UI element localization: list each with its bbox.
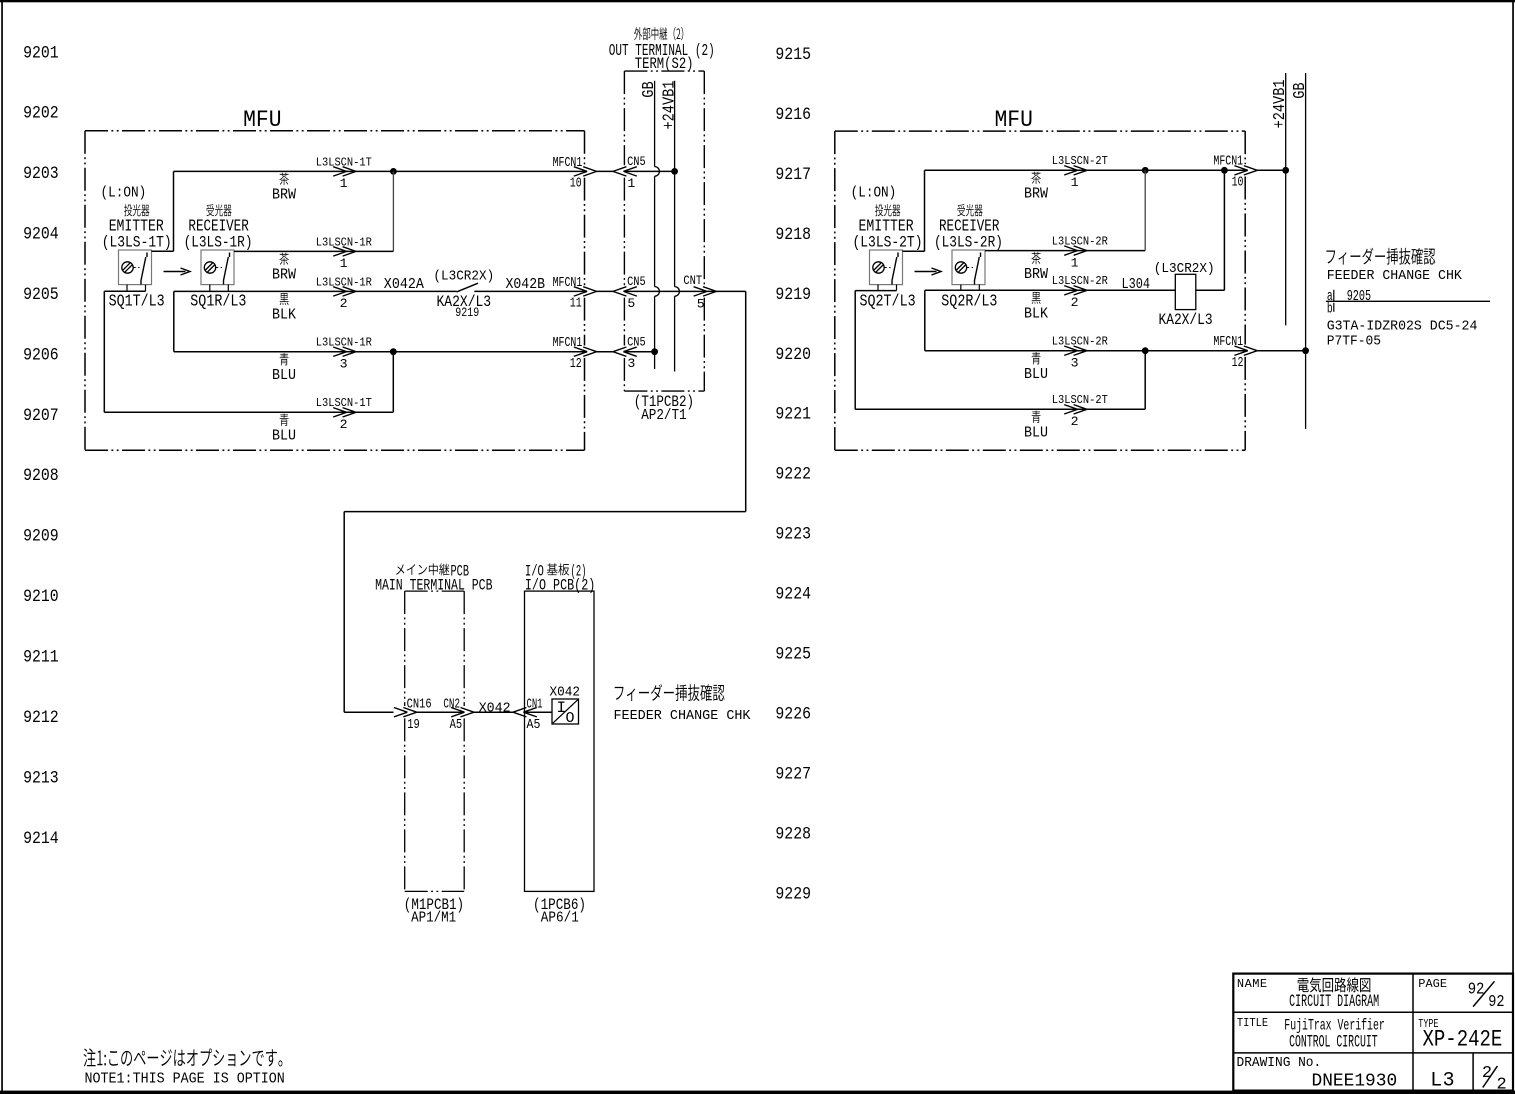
svg-text:TITLE: TITLE: [1237, 1016, 1268, 1030]
svg-text:MFCN1: MFCN1: [1213, 335, 1243, 350]
svg-text:9209: 9209: [23, 528, 59, 547]
svg-text:X042A: X042A: [384, 277, 424, 293]
svg-text:9226: 9226: [775, 706, 811, 725]
svg-text:CN16: CN16: [407, 696, 432, 712]
svg-text:1: 1: [1071, 175, 1079, 190]
svg-text:P7TF-05: P7TF-05: [1327, 334, 1381, 349]
svg-text:BLK: BLK: [272, 308, 296, 324]
svg-text:X042B: X042B: [506, 277, 546, 293]
svg-text:CN5: CN5: [627, 334, 646, 349]
svg-text:KA2X/L3: KA2X/L3: [1159, 311, 1213, 329]
svg-text:1: 1: [627, 176, 635, 191]
svg-text:AP2/T1: AP2/T1: [641, 408, 686, 424]
svg-text:BRW: BRW: [1024, 187, 1048, 203]
svg-text:5: 5: [697, 297, 705, 312]
svg-text:9213: 9213: [23, 769, 59, 788]
svg-text:BLU: BLU: [1024, 426, 1048, 442]
svg-text:MFCN1: MFCN1: [553, 276, 583, 291]
svg-text:9219: 9219: [455, 305, 479, 320]
svg-text:12: 12: [1232, 356, 1244, 371]
svg-text:9202: 9202: [23, 105, 59, 124]
svg-text:1: 1: [340, 176, 348, 191]
svg-text:(L3CR2X): (L3CR2X): [1154, 261, 1215, 277]
svg-text:9205: 9205: [23, 286, 59, 305]
svg-text:L3LSCN-2R: L3LSCN-2R: [1052, 235, 1108, 249]
svg-text:(L3LS-1R): (L3LS-1R): [184, 233, 253, 251]
svg-text:MFCN1: MFCN1: [553, 156, 583, 171]
svg-text:(L:ON): (L:ON): [851, 186, 897, 202]
svg-text:2: 2: [1071, 414, 1079, 429]
svg-text:L3LSCN-2T: L3LSCN-2T: [1052, 154, 1108, 168]
svg-text:XP-242E: XP-242E: [1423, 1027, 1503, 1053]
svg-text:9207: 9207: [23, 407, 59, 426]
svg-text:2: 2: [1497, 1076, 1507, 1094]
svg-text:9224: 9224: [775, 586, 811, 605]
svg-text:9218: 9218: [775, 226, 811, 245]
svg-text:9229: 9229: [775, 885, 811, 904]
svg-text:1: 1: [340, 256, 348, 271]
svg-text:CN2: CN2: [443, 696, 460, 712]
svg-text:9227: 9227: [775, 765, 811, 784]
svg-text:+24VB1: +24VB1: [660, 81, 678, 130]
svg-text:9205: 9205: [1347, 289, 1371, 305]
svg-text:9208: 9208: [23, 467, 59, 486]
svg-text:A5: A5: [450, 717, 463, 733]
svg-text:GB: GB: [1291, 82, 1309, 99]
svg-text:AP6/1: AP6/1: [541, 909, 579, 926]
svg-text:L304: L304: [1122, 277, 1151, 293]
svg-text:9221: 9221: [775, 406, 811, 425]
svg-text:L3LSCN-2R: L3LSCN-2R: [1052, 274, 1108, 288]
svg-text:A5: A5: [527, 717, 541, 733]
svg-text:10: 10: [1232, 176, 1244, 191]
svg-text:12: 12: [570, 357, 582, 372]
svg-text:MFCN1: MFCN1: [553, 336, 583, 351]
svg-text:TERM(S2): TERM(S2): [635, 55, 694, 73]
svg-text:BLU: BLU: [272, 368, 296, 384]
svg-text:9216: 9216: [775, 106, 811, 125]
svg-text:BLU: BLU: [272, 429, 296, 445]
svg-text:CNT: CNT: [683, 273, 702, 288]
svg-text:MFCN1: MFCN1: [1213, 155, 1243, 170]
svg-text:L3: L3: [1430, 1069, 1454, 1092]
svg-text:L3LSCN-2R: L3LSCN-2R: [1052, 335, 1108, 349]
svg-text:2: 2: [340, 417, 348, 432]
svg-text:(L3LS-1T): (L3LS-1T): [102, 233, 172, 251]
svg-text:2: 2: [340, 296, 348, 311]
svg-text:(L3CR2X): (L3CR2X): [433, 269, 494, 285]
svg-text:FujiTrax Verifier: FujiTrax Verifier: [1284, 1016, 1385, 1034]
svg-text:NOTE1:THIS PAGE IS OPTION: NOTE1:THIS PAGE IS OPTION: [85, 1072, 285, 1088]
svg-text:3: 3: [340, 357, 348, 372]
svg-text:CN1: CN1: [527, 696, 543, 712]
svg-text:X042: X042: [479, 700, 511, 716]
svg-text:10: 10: [570, 177, 582, 192]
svg-text:DRAWING No.: DRAWING No.: [1237, 1055, 1322, 1071]
svg-text:(L3LS-2T): (L3LS-2T): [853, 233, 923, 251]
svg-text:CN5: CN5: [627, 274, 646, 289]
svg-text:GB: GB: [640, 81, 658, 98]
svg-text:9217: 9217: [775, 166, 811, 185]
svg-text:NAME: NAME: [1237, 977, 1267, 991]
svg-text:SQ1R/L3: SQ1R/L3: [190, 292, 246, 311]
svg-text:+24VB1: +24VB1: [1271, 79, 1289, 128]
svg-text:9206: 9206: [23, 346, 59, 365]
svg-text:CIRCUIT DIAGRAM: CIRCUIT DIAGRAM: [1289, 993, 1379, 1012]
svg-text:5: 5: [627, 296, 635, 311]
svg-text:9225: 9225: [775, 646, 811, 665]
svg-text:9212: 9212: [23, 709, 59, 728]
svg-text:MFU: MFU: [995, 107, 1033, 134]
svg-text:(L3LS-2R): (L3LS-2R): [934, 233, 1003, 251]
svg-text:9203: 9203: [23, 165, 59, 184]
svg-text:BRW: BRW: [1024, 267, 1048, 283]
svg-text:9211: 9211: [23, 649, 59, 668]
svg-text:BLK: BLK: [1024, 307, 1048, 323]
svg-text:AP1/M1: AP1/M1: [411, 909, 456, 926]
svg-text:L3LSCN-2T: L3LSCN-2T: [1052, 393, 1108, 407]
svg-text:1: 1: [1071, 255, 1079, 270]
svg-text:9222: 9222: [775, 466, 811, 485]
svg-text:9214: 9214: [23, 830, 59, 849]
svg-text:O: O: [566, 710, 575, 727]
svg-text:9204: 9204: [23, 226, 59, 245]
svg-text:SQ2R/L3: SQ2R/L3: [941, 292, 997, 311]
svg-text:2: 2: [1482, 1064, 1492, 1083]
svg-text:3: 3: [627, 356, 635, 371]
svg-text:9220: 9220: [775, 346, 811, 365]
svg-text:CONTROL CIRCUIT: CONTROL CIRCUIT: [1289, 1034, 1378, 1053]
svg-text:X042: X042: [550, 685, 581, 701]
svg-text:9223: 9223: [775, 526, 811, 545]
svg-text:b: b: [1327, 300, 1333, 317]
svg-text:DNEE1930: DNEE1930: [1312, 1071, 1398, 1092]
svg-text:FEEDER CHANGE CHK: FEEDER CHANGE CHK: [1327, 269, 1463, 284]
svg-text:G3TA-IDZR02S DC5-24: G3TA-IDZR02S DC5-24: [1327, 320, 1478, 335]
svg-text:FEEDER CHANGE CHK: FEEDER CHANGE CHK: [614, 709, 752, 724]
svg-text:9210: 9210: [23, 588, 59, 607]
svg-text:BRW: BRW: [272, 268, 296, 284]
svg-text:92: 92: [1488, 993, 1504, 1012]
svg-text:9219: 9219: [775, 286, 811, 305]
svg-text:9215: 9215: [775, 46, 811, 65]
svg-text:SQ2T/L3: SQ2T/L3: [860, 292, 916, 311]
svg-text:BRW: BRW: [272, 188, 296, 204]
svg-text:PAGE: PAGE: [1418, 977, 1447, 991]
svg-text:3: 3: [1071, 356, 1079, 371]
svg-text:2: 2: [1071, 295, 1079, 310]
svg-text:CN5: CN5: [627, 154, 646, 169]
svg-text:9201: 9201: [23, 44, 59, 63]
svg-text:MAIN TERMINAL PCB: MAIN TERMINAL PCB: [375, 576, 492, 594]
svg-text:9228: 9228: [775, 825, 811, 844]
svg-text:(L:ON): (L:ON): [101, 186, 147, 202]
svg-text:BLU: BLU: [1024, 367, 1048, 383]
svg-text:19: 19: [407, 717, 420, 733]
svg-text:MFU: MFU: [243, 107, 281, 134]
svg-text:11: 11: [570, 297, 582, 312]
svg-text:SQ1T/L3: SQ1T/L3: [109, 292, 165, 311]
